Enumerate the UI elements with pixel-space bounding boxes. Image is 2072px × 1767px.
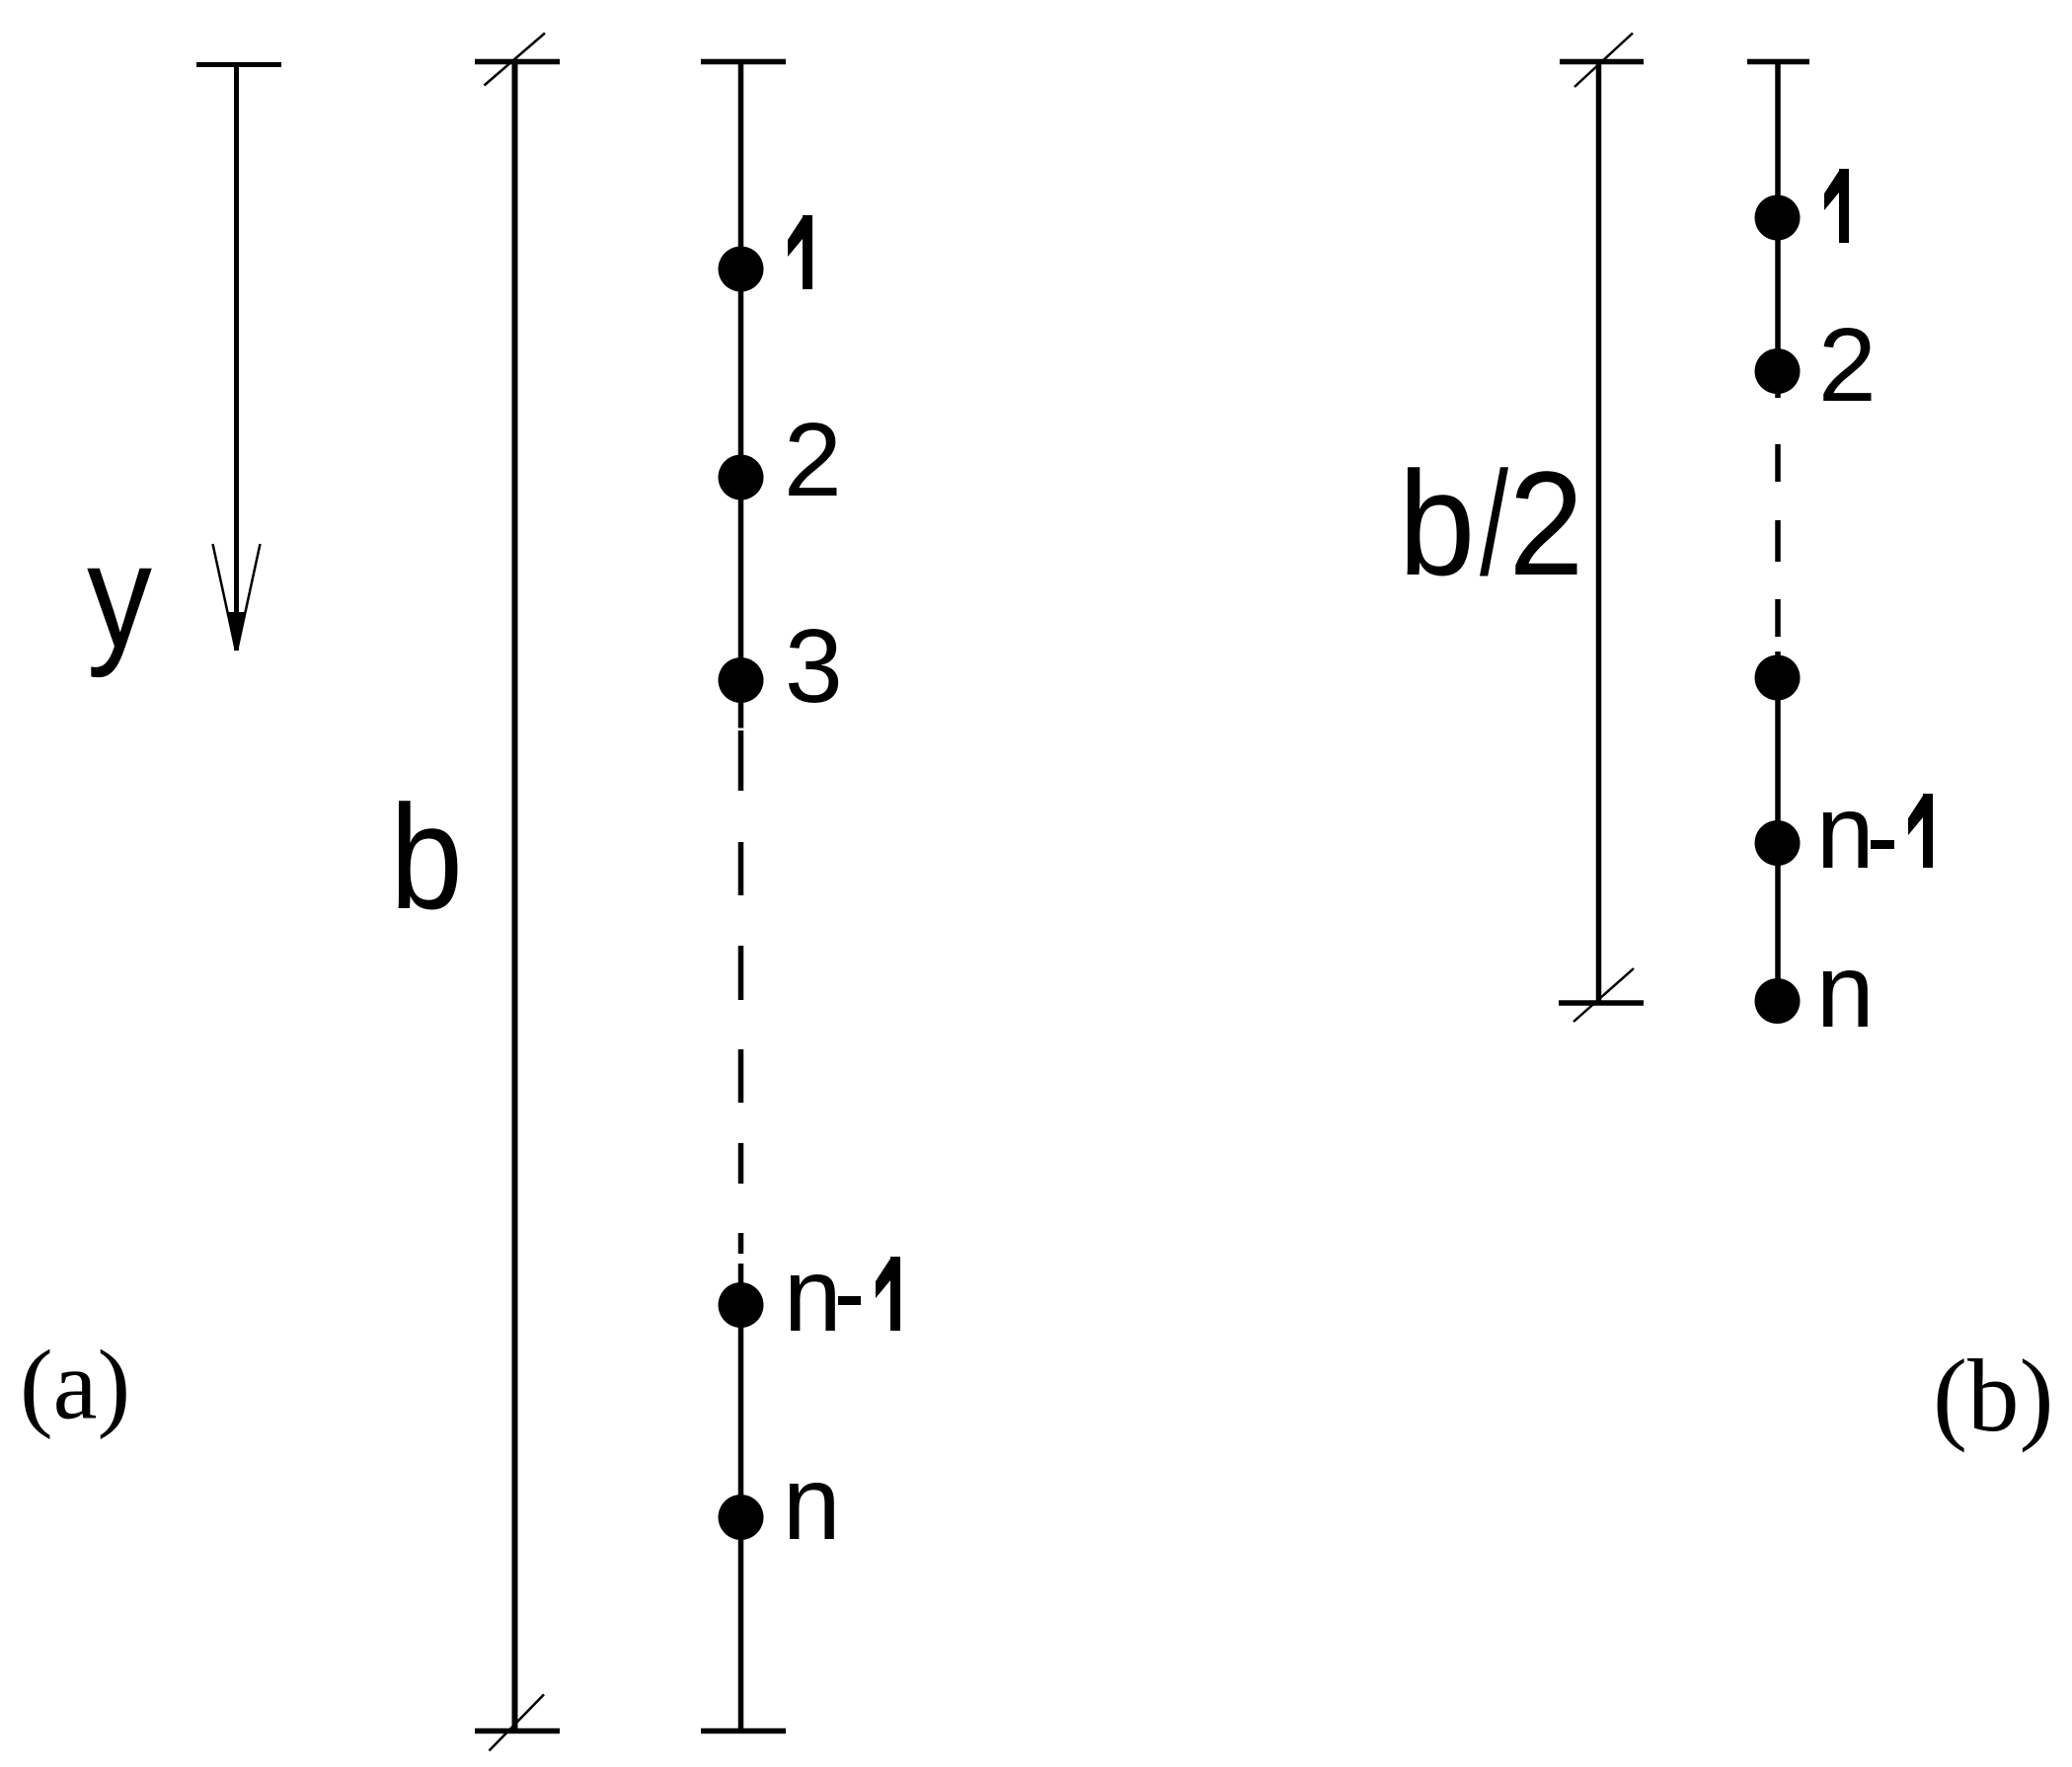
- svg-text:y: y: [87, 512, 152, 678]
- dimension line b/2: bottom slash: [1573, 968, 1634, 1022]
- dimension line b/2: top slash: [1574, 34, 1633, 88]
- svg-text:n: n: [1816, 774, 1875, 890]
- node line (b): top tick: [1747, 59, 1809, 65]
- node 1 (a): [719, 247, 764, 292]
- y-axis arrowhead left wing: [213, 544, 236, 649]
- node line (a): bottom tick: [701, 1729, 786, 1734]
- svg-text:n: n: [1816, 933, 1875, 1049]
- node 2 (b): [1755, 348, 1801, 394]
- node line (a): top tick: [701, 59, 786, 65]
- node n-1 (b): [1755, 820, 1801, 866]
- label 1 (a): [788, 215, 812, 289]
- label n-1 (b): [1816, 774, 1933, 890]
- svg-text:b: b: [1399, 440, 1476, 606]
- y-axis arrowhead right wing: [238, 544, 261, 649]
- node 3 (a): [719, 657, 764, 703]
- node n (a): [719, 1495, 764, 1540]
- dimension line b: vertical: [512, 62, 518, 1731]
- svg-text:2: 2: [1818, 307, 1877, 423]
- dimension line b/2: vertical: [1596, 62, 1602, 1004]
- node n-1 (a): [719, 1282, 764, 1328]
- label 1 (b): [1824, 169, 1849, 243]
- svg-text:2: 2: [784, 402, 842, 518]
- y-axis arrowhead tip: [229, 612, 245, 652]
- svg-text:3: 3: [785, 608, 843, 725]
- label b/2: [1399, 440, 1584, 606]
- svg-text:n: n: [784, 1237, 842, 1353]
- svg-text:b: b: [390, 774, 463, 940]
- node line (a): upper solid wire: [738, 62, 744, 729]
- label n-1 (a): [784, 1237, 900, 1353]
- dimension line b/2: bottom tick: [1559, 1000, 1644, 1006]
- node line (a): dashed wire: [738, 730, 744, 1254]
- svg-text:n: n: [783, 1445, 841, 1562]
- y-axis arrow top tick: [196, 62, 281, 67]
- node line (a): lower solid wire: [738, 1264, 744, 1731]
- svg-text:2: 2: [1508, 440, 1583, 606]
- node mid (b): [1755, 655, 1801, 701]
- node line (b): dashed wire: [1775, 444, 1781, 637]
- node n (b): [1755, 978, 1801, 1024]
- svg-text:(b): (b): [1933, 1338, 2053, 1453]
- y-axis arrow shaft: [234, 62, 239, 651]
- svg-text:/: /: [1480, 440, 1508, 606]
- dimension line b: top slash: [485, 34, 546, 86]
- node line (b): upper solid wire: [1775, 62, 1781, 399]
- dimension line b: bottom slash: [490, 1695, 545, 1751]
- dimension line b: bottom tick: [475, 1729, 560, 1734]
- node 2 (a): [719, 455, 764, 500]
- dimension line b/2: top tick: [1560, 59, 1644, 65]
- dimension line b: top tick: [475, 59, 560, 65]
- svg-text:(a): (a): [20, 1330, 130, 1440]
- node 1 (b): [1755, 195, 1801, 241]
- node line (b): lower solid wire: [1775, 652, 1781, 1003]
